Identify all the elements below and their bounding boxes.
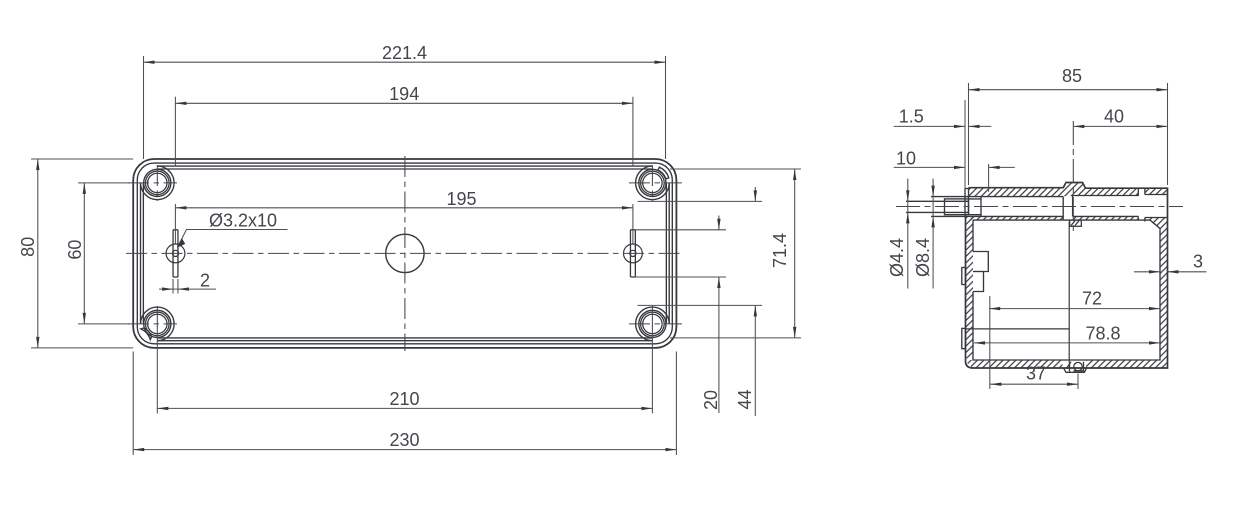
- svg-text:230: 230: [389, 430, 419, 450]
- svg-text:Ø3.2x10: Ø3.2x10: [209, 211, 277, 231]
- svg-text:44: 44: [735, 389, 755, 409]
- svg-text:Ø4.4: Ø4.4: [887, 238, 907, 277]
- svg-text:194: 194: [389, 84, 419, 104]
- svg-text:Ø8.4: Ø8.4: [913, 238, 933, 277]
- svg-text:71.4: 71.4: [770, 233, 790, 268]
- svg-text:85: 85: [1062, 66, 1082, 86]
- svg-text:3: 3: [1193, 252, 1203, 272]
- svg-text:10: 10: [896, 148, 916, 168]
- svg-text:37: 37: [1026, 363, 1046, 383]
- svg-text:195: 195: [446, 189, 476, 209]
- svg-text:72: 72: [1082, 288, 1102, 308]
- svg-text:80: 80: [18, 237, 38, 257]
- svg-text:78.8: 78.8: [1085, 323, 1120, 343]
- svg-text:1.5: 1.5: [899, 106, 924, 126]
- svg-text:210: 210: [389, 389, 419, 409]
- svg-text:20: 20: [701, 390, 721, 410]
- svg-text:2: 2: [200, 270, 210, 290]
- svg-text:40: 40: [1104, 106, 1124, 126]
- svg-text:60: 60: [65, 240, 85, 260]
- svg-text:221.4: 221.4: [382, 43, 427, 63]
